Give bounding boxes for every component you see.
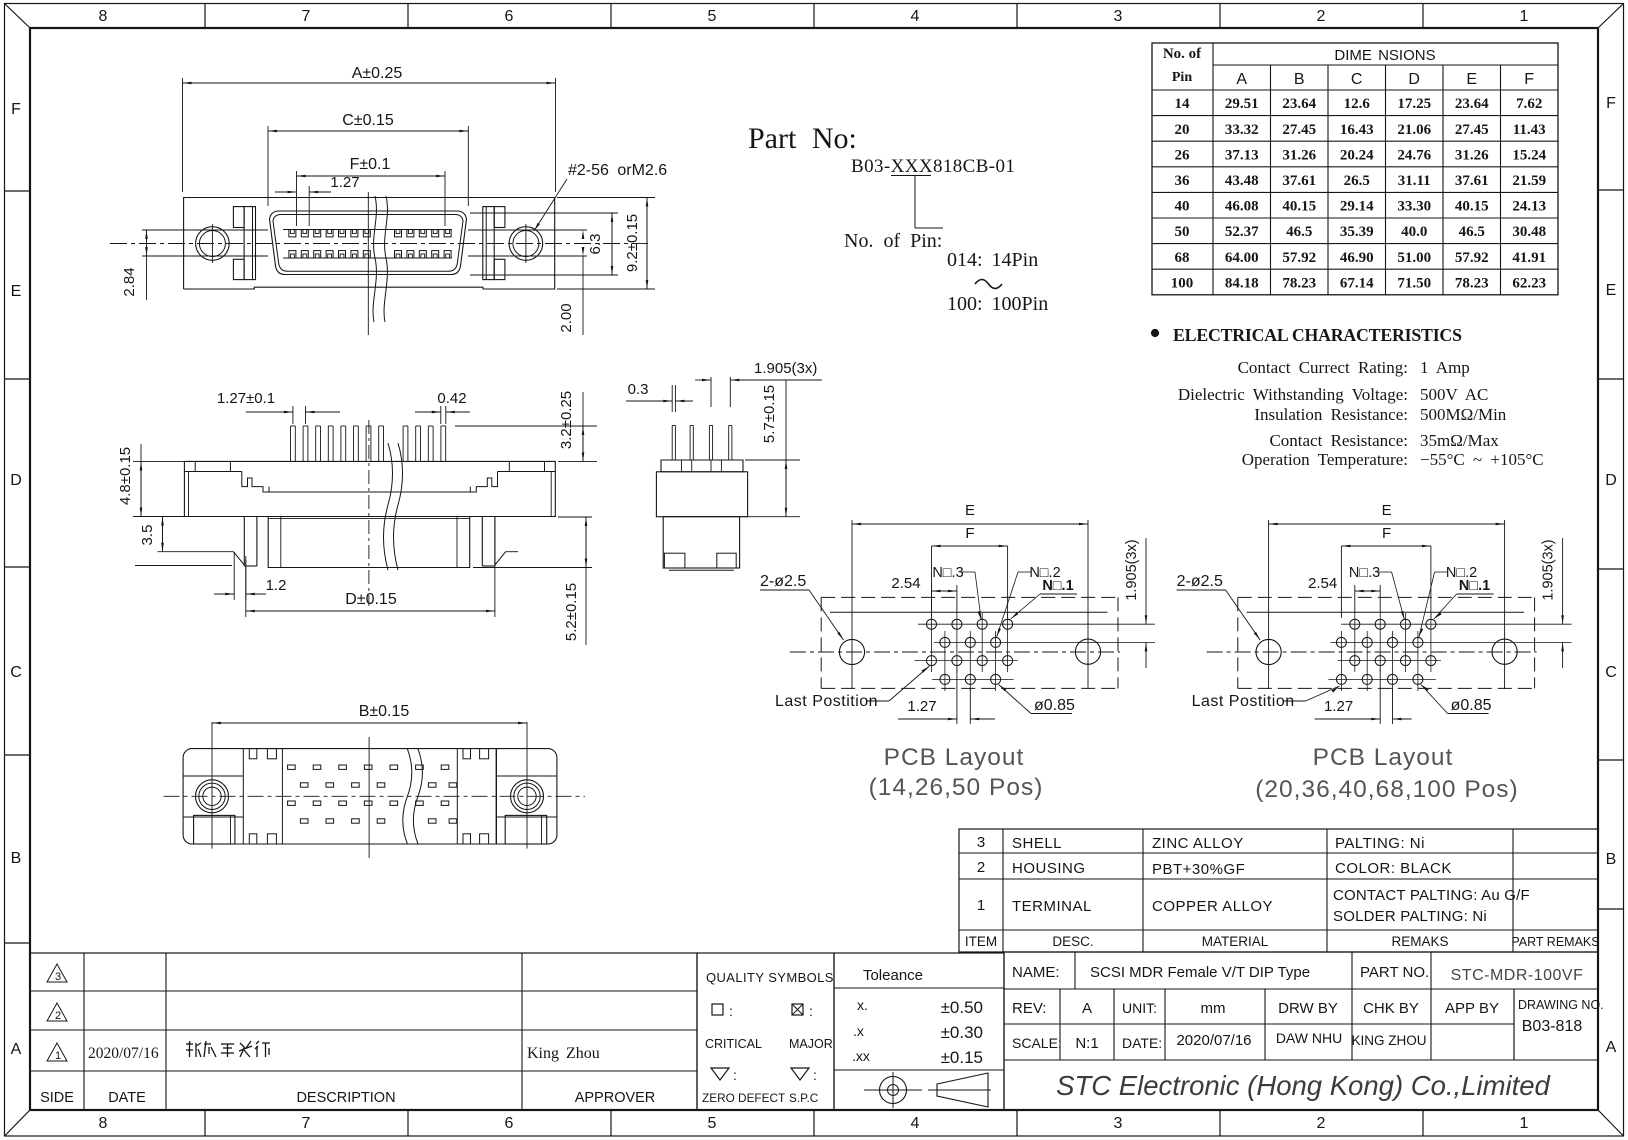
svg-text:Pin: Pin [1172,70,1192,85]
svg-text:2.00: 2.00 [558,303,575,332]
bottom view bottom edge notches [249,834,256,844]
dimension 1.27 pcb [1379,668,1381,724]
svg-text:E: E [1606,282,1617,299]
svg-text:DRW BY: DRW BY [1278,1000,1338,1017]
svg-text:.xx: .xx [852,1048,870,1064]
svg-text:78.23: 78.23 [1282,275,1316,291]
svg-text:No. of Pin:: No. of Pin: [844,230,942,252]
svg-text:6.3: 6.3 [587,234,604,255]
bottom view left hole centerline [211,722,213,849]
svg-text:COLOR: BLACK: COLOR: BLACK [1335,860,1452,877]
svg-text:E: E [1382,502,1392,519]
front view contacts top row [289,230,296,237]
bottom view latch slot lines [183,775,243,777]
svg-text:5: 5 [708,8,717,25]
side view latch profile left [242,472,269,493]
svg-text:5.2±0.15: 5.2±0.15 [563,583,580,641]
svg-text:REMAKS: REMAKS [1391,934,1448,949]
dimension 1.27 front view [308,186,310,226]
svg-text:D±0.15: D±0.15 [345,591,397,608]
svg-text:PCB Layout: PCB Layout [884,744,1025,771]
dimension 0.42 [440,406,442,424]
svg-text:8: 8 [99,8,108,25]
svg-text:Operation Temperature:: Operation Temperature: [1242,450,1408,469]
svg-text:x.: x. [857,997,868,1013]
side view bottom left leg [243,517,245,567]
svg-text:ZINC ALLOY: ZINC ALLOY [1152,835,1244,852]
pcb layout pin holes [927,619,937,629]
svg-text:46.5: 46.5 [1286,224,1312,240]
svg-text:REV:: REV: [1012,1000,1046,1017]
pcb layout pin holes [1350,619,1360,629]
end view body [661,460,743,472]
dimension 1.27 pcb [956,668,958,724]
svg-text:APP BY: APP BY [1445,1000,1499,1017]
svg-text:26: 26 [1175,147,1191,163]
pcb layout left mounting hole [1256,639,1281,664]
svg-text:35mΩ/Max: 35mΩ/Max [1420,431,1499,450]
bottom view body outline [183,749,557,844]
svg-text:Insulation Resistance:: Insulation Resistance: [1254,405,1408,424]
dimension B±0.15 [212,722,527,724]
svg-text:MATERIAL: MATERIAL [1202,934,1269,949]
bottom view right hole centerline [526,722,528,849]
svg-text:MAJOR: MAJOR [789,1037,833,1051]
bottom view left insert circles [196,780,229,813]
svg-text:PART NO.: PART NO. [1360,964,1429,981]
front view break line [373,196,376,322]
svg-text:014: 14Pin: 014: 14Pin [947,249,1038,271]
svg-text:PALTING: Ni: PALTING: Ni [1335,835,1425,852]
svg-text:15.24: 15.24 [1512,147,1546,163]
svg-text::: : [813,1067,817,1083]
svg-text:1.27: 1.27 [330,174,359,191]
svg-text:2: 2 [977,859,985,876]
front view right jack screw bracket [483,207,494,280]
svg-text:43.48: 43.48 [1225,173,1259,189]
pcb layout solid edge line [830,611,1108,613]
svg-text:64.00: 64.00 [1225,250,1259,266]
revision table grid [30,953,697,1110]
svg-text:4: 4 [911,1115,920,1132]
svg-text:E: E [965,502,975,519]
bottom view break line [403,749,412,844]
dimension 2.54 pcb [931,585,933,613]
svg-text:100: 100Pin: 100: 100Pin [947,293,1048,315]
svg-text:D: D [1408,71,1420,88]
side view bottom housing [268,517,470,568]
svg-text:C: C [10,664,22,681]
svg-text:D: D [10,472,22,489]
svg-text:E: E [11,283,22,300]
svg-text:No. of: No. of [1163,46,1202,62]
dimension 2.84 [146,230,148,256]
part number leader line [914,176,916,228]
front view right mounting hole [509,227,543,261]
svg-text:7: 7 [302,8,311,25]
end view pins [671,426,673,461]
svg-text:SCSI MDR Female V/T DIP T: SCSI MDR Female V/T DIP Type [1090,964,1310,981]
svg-text:ø0.85: ø0.85 [1034,697,1075,714]
dimensions table grid [1152,43,1558,295]
svg-text::: : [733,1067,737,1083]
quality symbols box [697,953,834,1110]
svg-text:68: 68 [1175,250,1190,266]
svg-text:DESCRIPTION: DESCRIPTION [296,1090,395,1106]
svg-text:1: 1 [1520,1115,1529,1132]
front view insulator bar bottom [283,257,452,259]
svg-text:Dielectric Withstanding Voltag: Dielectric Withstanding Voltage: [1178,385,1408,404]
svg-text:CHK BY: CHK BY [1363,1000,1419,1017]
svg-text:ZERO DEFECT: ZERO DEFECT [702,1091,785,1105]
svg-text:(14,26,50 Pos): (14,26,50 Pos) [869,774,1044,801]
svg-text:46.90: 46.90 [1340,250,1374,266]
svg-text:F±0.1: F±0.1 [350,156,391,173]
svg-text:APPROVER: APPROVER [575,1090,656,1106]
side view latch profile right [470,472,497,493]
svg-text:23.64: 23.64 [1282,96,1316,112]
svg-text:.x: .x [853,1023,864,1039]
svg-text:C: C [1605,664,1617,681]
svg-text:2-ø2.5: 2-ø2.5 [1177,573,1223,590]
svg-text:40.15: 40.15 [1455,199,1489,215]
svg-text:1.905(3x): 1.905(3x) [1124,539,1140,600]
border corner diagonals [5,4,31,29]
svg-text:F: F [965,525,974,542]
svg-text:NAME:: NAME: [1012,964,1060,981]
dimension E pcb [851,521,853,652]
svg-text:41.91: 41.91 [1512,250,1546,266]
svg-text:2-ø2.5: 2-ø2.5 [760,573,806,590]
svg-text:16.43: 16.43 [1340,122,1374,138]
svg-text:23.64: 23.64 [1455,96,1489,112]
pcb layout right mounting hole [1492,639,1517,664]
side view top flange [184,461,555,471]
svg-text:62.23: 62.23 [1512,275,1546,291]
svg-text:57.92: 57.92 [1455,250,1489,266]
quality symbol minor square [712,1004,723,1015]
quality triangle symbols [711,1068,729,1080]
title block grid [1004,952,1598,1110]
svg-text:B: B [1606,851,1617,868]
bottom view right insert circles [511,780,544,813]
svg-text:71.50: 71.50 [1397,275,1431,291]
svg-text:500V AC: 500V AC [1420,385,1488,404]
svg-text:0.42: 0.42 [437,390,466,407]
svg-text:2.84: 2.84 [121,267,138,296]
svg-text:100: 100 [1171,275,1194,291]
front view left mounting hole [196,227,230,261]
front view horizontal centerline [110,243,648,245]
svg-text:24.76: 24.76 [1397,147,1431,163]
svg-text:Last Postition: Last Postition [1192,693,1295,710]
front view D-sub shell outer [270,211,467,275]
svg-text:±0.50: ±0.50 [941,998,983,1017]
pcb layout dashed board outline [1238,596,1535,598]
svg-text:DAW NHU: DAW NHU [1276,1030,1342,1046]
svg-text:N□.3: N□.3 [1349,565,1380,581]
zone tick marks right [1598,189,1624,191]
front view left hole vertical centerline [211,224,213,263]
bottom view horizontal centerline [164,795,586,797]
svg-text:PART REMAKS: PART REMAKS [1511,935,1599,949]
svg-text:N□.1: N□.1 [1459,578,1490,594]
svg-text:3: 3 [977,834,985,851]
svg-text::: : [809,1003,813,1019]
svg-text:37.61: 37.61 [1455,173,1489,189]
dimension 6.3 [470,212,618,214]
svg-text:Part No:: Part No: [748,122,857,155]
dimension D±0.15 [245,556,247,617]
dimension 3.2±0.25 [455,425,597,427]
dimension 2.00 [582,230,585,239]
svg-text:1.905(3x): 1.905(3x) [754,360,817,377]
bottom view right section line [495,749,497,844]
svg-text:ø0.85: ø0.85 [1451,697,1492,714]
svg-text:STC-MDR-100VF: STC-MDR-100VF [1451,967,1584,984]
svg-text:5.7±0.15: 5.7±0.15 [761,385,778,443]
svg-text:11.43: 11.43 [1513,122,1546,138]
svg-text:4: 4 [911,8,920,25]
svg-text:40.0: 40.0 [1401,224,1427,240]
svg-text:Last Postition: Last Postition [775,693,878,710]
svg-text:1.905(3x): 1.905(3x) [1541,539,1557,600]
svg-text:1.27: 1.27 [1324,698,1353,715]
svg-text:B03-XXX818CB-01: B03-XXX818CB-01 [851,156,1015,177]
svg-text:DATE: DATE [108,1090,146,1106]
svg-text:9.2±0.15: 9.2±0.15 [624,214,641,272]
svg-text:2: 2 [55,1010,61,1022]
pcb layout dashed board outline [821,596,1118,598]
revision triangle 3 [47,964,67,982]
svg-text:(20,36,40,68,100 Pos): (20,36,40,68,100 Pos) [1255,776,1518,803]
dimension 3.5 [162,517,164,552]
revision triangle 1 [47,1043,67,1061]
svg-text:1 Amp: 1 Amp [1420,358,1470,377]
zone tick marks top [204,4,206,29]
svg-text:2020/07/16: 2020/07/16 [88,1045,159,1062]
pcb layout right mounting hole [1075,639,1100,664]
pcb layout horizontal centerline [790,651,1120,653]
projection symbol cone [937,1073,988,1107]
bottom view pad area lines [281,749,283,844]
svg-text:26.5: 26.5 [1344,173,1370,189]
svg-text:30.48: 30.48 [1512,224,1546,240]
zone tick marks left [5,190,31,192]
svg-text:C±0.15: C±0.15 [342,112,394,129]
dimension 1.27±0.1 side view [292,406,294,424]
svg-text:F: F [11,101,21,118]
svg-text:D: D [1605,472,1617,489]
front view latch slot lines right [468,229,587,231]
svg-text:CRITICAL: CRITICAL [705,1037,762,1051]
svg-text:1.27±0.1: 1.27±0.1 [217,390,275,407]
dimension 1.2 [233,552,235,600]
svg-text:8: 8 [99,1115,108,1132]
bottom view top edge notches [249,749,256,759]
svg-text:2: 2 [1317,8,1326,25]
svg-text:A: A [1236,71,1247,88]
svg-text:F: F [1606,95,1616,112]
side view insulator line [269,491,470,493]
svg-text:1: 1 [977,897,985,914]
dimension 4.8±0.15 [133,460,184,462]
side view terminals row [290,426,292,461]
front view connector body outline [184,198,555,290]
svg-text:DIME NSIONS: DIME NSIONS [1334,47,1435,64]
revision description CJK text [186,1043,193,1045]
svg-text:DRAWING NO.: DRAWING NO. [1518,998,1604,1012]
dimension F±0.1 [296,171,298,226]
svg-text:500MΩ/Min: 500MΩ/Min [1420,405,1507,424]
svg-text:KING ZHOU: KING ZHOU [1351,1033,1426,1048]
svg-text:33.30: 33.30 [1397,199,1431,215]
end view feet [664,553,685,568]
svg-text:40.15: 40.15 [1282,199,1316,215]
svg-text:46.5: 46.5 [1459,224,1485,240]
svg-text:24.13: 24.13 [1512,199,1546,215]
svg-text:2.54: 2.54 [1308,575,1337,592]
svg-text:6: 6 [505,1115,514,1132]
front view latch slot lines left [142,229,268,231]
svg-text:ITEM: ITEM [965,934,997,949]
front view insulator bar top [283,229,452,231]
svg-text:31.11: 31.11 [1398,173,1431,189]
svg-text:SCALE:: SCALE: [1012,1035,1062,1051]
part number underline under XXX [891,175,931,177]
svg-text:31.26: 31.26 [1455,147,1489,163]
svg-text:52.37: 52.37 [1225,224,1259,240]
svg-text:STC Electronic (Hong Kong) Co.: STC Electronic (Hong Kong) Co.,Limited [1056,1070,1551,1101]
svg-text:14: 14 [1175,96,1191,112]
svg-text:27.45: 27.45 [1282,122,1316,138]
svg-text:#2-56 orM2.6: #2-56 orM2.6 [568,162,667,179]
svg-text:DATE:: DATE: [1122,1035,1162,1051]
pcb layout horizontal centerline [1207,651,1537,653]
svg-text:CONTACT PALTING: Au G/F: CONTACT PALTING: Au G/F [1333,887,1530,904]
dimension 5.7±0.15 [745,459,800,461]
svg-text:20: 20 [1175,122,1190,138]
svg-text:1.2: 1.2 [266,577,287,594]
dimension E pcb [1268,521,1270,652]
svg-text:A±0.25: A±0.25 [352,65,403,82]
svg-text:78.23: 78.23 [1455,275,1489,291]
svg-text:mm: mm [1201,1000,1226,1017]
dimension A±0.25 [182,78,184,192]
svg-text:3: 3 [55,971,61,983]
svg-text:A: A [11,1041,22,1058]
svg-text:29.51: 29.51 [1225,96,1259,112]
svg-text:S.P.C: S.P.C [789,1091,819,1105]
front view right hole vertical centerline [525,224,527,263]
svg-text:27.45: 27.45 [1455,122,1489,138]
svg-text:B: B [11,850,22,867]
svg-text:1: 1 [55,1050,61,1062]
svg-text:PCB Layout: PCB Layout [1313,744,1454,771]
svg-text:B: B [1294,71,1305,88]
svg-text:A: A [1082,1000,1092,1017]
svg-text:31.26: 31.26 [1282,147,1316,163]
svg-text:N□.3: N□.3 [932,565,963,581]
svg-text:21.06: 21.06 [1397,122,1431,138]
svg-text:SHELL: SHELL [1012,835,1062,852]
svg-text:±0.15: ±0.15 [941,1048,983,1067]
tolerance box [834,953,1004,1110]
dimension 9.2±0.15 [557,197,655,199]
bottom view solder pads [288,765,296,769]
svg-text:50: 50 [1175,224,1190,240]
svg-text:ELECTRICAL CHARACTERISTICS: ELECTRICAL CHARACTERISTICS [1173,325,1462,345]
svg-text:37.61: 37.61 [1282,173,1316,189]
svg-text:46.08: 46.08 [1225,199,1259,215]
svg-text:36: 36 [1175,173,1191,189]
svg-text:0.3: 0.3 [628,381,649,398]
pcb layout left mounting hole [839,639,864,664]
bottom view right foot [505,815,547,844]
svg-text:N□.1: N□.1 [1042,578,1073,594]
side view bottom right leg [494,517,496,567]
parts list table grid [959,829,1598,952]
svg-text:Contact Resistance:: Contact Resistance: [1269,431,1408,450]
svg-text:3: 3 [1114,8,1123,25]
svg-text:2.54: 2.54 [891,575,920,592]
svg-text:UNIT:: UNIT: [1122,1000,1157,1016]
dimension 2.54 pcb [1354,585,1356,613]
electrical characteristics heading bullet [1151,329,1158,336]
svg-text:4.8±0.15: 4.8±0.15 [117,447,134,505]
svg-text:37.13: 37.13 [1225,147,1259,163]
svg-text:6: 6 [505,8,514,25]
dimension C±0.15 [267,126,269,206]
svg-text:12.6: 12.6 [1344,96,1371,112]
svg-text:29.14: 29.14 [1340,199,1374,215]
svg-text:51.00: 51.00 [1397,250,1431,266]
svg-text:17.25: 17.25 [1397,96,1431,112]
bottom view left foot [194,815,235,844]
dimension F pcb [931,546,933,618]
svg-text:1: 1 [1520,8,1529,25]
svg-text:57.92: 57.92 [1282,250,1316,266]
bottom view vertical centerline [368,737,370,858]
svg-text:21.59: 21.59 [1512,173,1546,189]
svg-text:C: C [1351,71,1363,88]
svg-text:7.62: 7.62 [1516,96,1542,112]
svg-text:King Zhou: King Zhou [527,1045,600,1062]
quality symbol major square crossed [792,1004,803,1015]
end view lower block [663,517,739,568]
svg-text:SOLDER PALTING: Ni: SOLDER PALTING: Ni [1333,908,1487,925]
pcb layout hole row lines [918,623,1155,625]
revision triangle 2 [47,1003,67,1021]
svg-text:±0.30: ±0.30 [941,1023,983,1042]
projection symbol circle [880,1077,907,1104]
front view D-sub shell inner [273,215,463,272]
end view main block [656,472,747,517]
svg-text:A: A [1606,1039,1617,1056]
svg-text:F: F [1382,525,1391,542]
svg-text:2020/07/16: 2020/07/16 [1176,1032,1251,1049]
svg-text:TERMINAL: TERMINAL [1012,898,1092,915]
dimension F pcb [1340,546,1342,618]
svg-text:COPPER ALLOY: COPPER ALLOY [1152,898,1273,915]
svg-text:QUALITY SYMBOLS: QUALITY SYMBOLS [706,970,834,985]
svg-text:F: F [1524,71,1534,88]
side view upper body [184,472,555,517]
svg-text:1.27: 1.27 [907,698,936,715]
svg-text:3.5: 3.5 [139,525,156,546]
svg-text:7: 7 [302,1115,311,1132]
svg-text:B±0.15: B±0.15 [359,703,410,720]
